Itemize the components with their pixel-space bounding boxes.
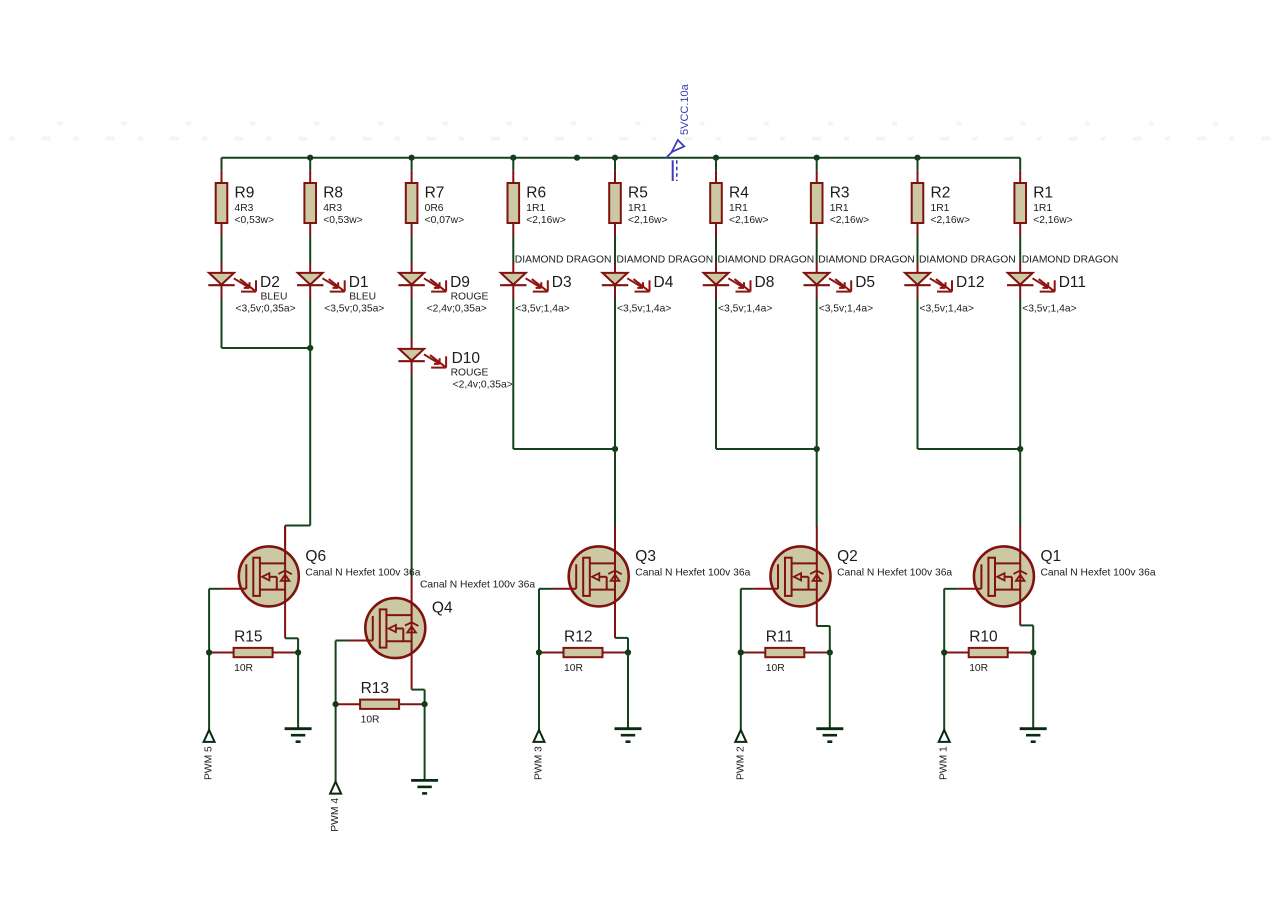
wire R2 to LED — [917, 236, 919, 262]
transistor Q2 — [754, 526, 953, 626]
node rail junction x=411.6 — [409, 155, 415, 161]
wire R8 to LED — [309, 236, 311, 262]
wire Q6 source to ground — [297, 653, 299, 729]
svg-text:R5: R5 — [628, 184, 648, 201]
wire Q1 source to ground — [1032, 653, 1034, 729]
wire R3 to LED — [816, 236, 818, 262]
wire D10 down to Q4 — [411, 374, 413, 578]
wire Q1 gate — [944, 588, 957, 590]
resistor R7 — [406, 170, 464, 236]
wire R4 to LED — [715, 236, 717, 262]
svg-text:DIAMOND DRAGON: DIAMOND DRAGON — [1022, 254, 1119, 265]
node R12 source junction — [625, 649, 631, 655]
svg-text:10R: 10R — [361, 715, 380, 726]
LED D10 — [398, 338, 512, 390]
svg-text:D12: D12 — [956, 274, 984, 291]
wire D5 column down to Q2 — [816, 299, 818, 527]
node R15 gate junction — [206, 649, 212, 655]
svg-text:<3,5v;1,4a>: <3,5v;1,4a> — [617, 303, 671, 314]
svg-text:PWM 1: PWM 1 — [939, 746, 950, 780]
wire Q3 gate — [539, 588, 552, 590]
node rail junction x=310.2 — [307, 155, 313, 161]
wire D12 down — [917, 299, 919, 450]
resistor R12 — [539, 628, 628, 674]
svg-text:<3,5v;0,35a>: <3,5v;0,35a> — [324, 303, 384, 314]
wire rail to R3 — [816, 158, 818, 171]
svg-text:1R1: 1R1 — [729, 203, 748, 214]
node rail junction x=716 — [713, 155, 719, 161]
svg-text:<3,5v;1,4a>: <3,5v;1,4a> — [515, 303, 569, 314]
wire R9 to LED — [221, 236, 223, 262]
transistor Q3 — [552, 526, 751, 638]
resistor R15 — [209, 628, 298, 674]
wire D8 down — [715, 299, 717, 450]
node D2/D1 junction — [307, 345, 313, 351]
svg-text:BLEU: BLEU — [349, 292, 376, 303]
node R13 gate junction — [333, 701, 339, 707]
svg-text:Canal N Hexfet 100v 36a: Canal N Hexfet 100v 36a — [305, 568, 420, 579]
svg-text:D2: D2 — [260, 274, 280, 291]
svg-text:<2,16w>: <2,16w> — [729, 215, 769, 226]
svg-text:<0,53w>: <0,53w> — [235, 215, 275, 226]
resistor R6 — [508, 170, 566, 236]
wire Q3 source jog — [615, 637, 628, 639]
svg-text:<2,4v;0,35a>: <2,4v;0,35a> — [427, 303, 487, 314]
svg-text:Q4: Q4 — [432, 600, 453, 617]
svg-text:10R: 10R — [564, 663, 583, 674]
svg-text:DIAMOND DRAGON: DIAMOND DRAGON — [818, 254, 915, 265]
node rail junction x=577 — [574, 155, 580, 161]
LED D4 — [602, 254, 713, 314]
svg-text:<2,16w>: <2,16w> — [931, 215, 971, 226]
wire R5 to LED — [614, 236, 616, 262]
svg-text:PWM 3: PWM 3 — [534, 746, 545, 780]
transistor Q1 — [957, 526, 1156, 625]
svg-text:Canal N Hexfet 100v 36a: Canal N Hexfet 100v 36a — [635, 568, 750, 579]
node R15 source junction — [295, 649, 301, 655]
resistor R13 — [336, 680, 425, 726]
resistor R9 — [216, 170, 274, 236]
wire R1 to LED — [1019, 236, 1021, 262]
LED D2 — [208, 262, 295, 314]
node rail junction x=513.3 — [510, 155, 516, 161]
node rail junction x=917.5 — [914, 155, 920, 161]
svg-text:PWM 4: PWM 4 — [330, 798, 341, 832]
ground — [1020, 729, 1047, 742]
node D3/D4 junction — [612, 446, 618, 452]
svg-text:Canal N Hexfet 100v 36a: Canal N Hexfet 100v 36a — [420, 579, 535, 590]
svg-text:R4: R4 — [729, 184, 749, 201]
wire D2 to D1 column — [222, 347, 311, 349]
wire rail to R9 — [221, 158, 223, 171]
svg-text:R8: R8 — [323, 184, 343, 201]
wire Q6 gate — [209, 588, 222, 590]
svg-text:<2,16w>: <2,16w> — [1033, 215, 1073, 226]
node R11 gate junction — [738, 649, 744, 655]
wire rail to R7 — [411, 158, 413, 171]
svg-text:10R: 10R — [766, 663, 785, 674]
svg-text:R2: R2 — [931, 184, 951, 201]
svg-text:R9: R9 — [235, 184, 255, 201]
svg-text:DIAMOND DRAGON: DIAMOND DRAGON — [718, 254, 815, 265]
svg-text:R15: R15 — [234, 628, 262, 645]
resistor R11 — [741, 628, 830, 674]
wire rail to R5 — [614, 158, 616, 171]
input terminal PWM 5 — [204, 730, 215, 780]
svg-text:1R1: 1R1 — [931, 203, 950, 214]
svg-text:PWM 5: PWM 5 — [204, 746, 215, 780]
wire Q2 source jog — [817, 625, 830, 627]
resistor R8 — [304, 170, 362, 236]
svg-text:<3,5v;0,35a>: <3,5v;0,35a> — [236, 303, 296, 314]
svg-text:<3,5v;1,4a>: <3,5v;1,4a> — [1022, 303, 1076, 314]
LED D9 — [398, 262, 488, 314]
svg-text:R6: R6 — [526, 184, 546, 201]
wire D4 column down to Q3 — [614, 299, 616, 527]
wire D3 to D4 column — [513, 448, 615, 450]
wire Q4 gate — [336, 640, 349, 642]
svg-text:<2,16w>: <2,16w> — [628, 215, 668, 226]
wire Q4 source to ground — [424, 704, 426, 780]
svg-text:<3,5v;1,4a>: <3,5v;1,4a> — [819, 303, 873, 314]
wire D11 column down to Q1 — [1019, 299, 1021, 527]
svg-text:R12: R12 — [564, 628, 592, 645]
ground — [816, 729, 843, 742]
svg-text:Q3: Q3 — [635, 548, 656, 565]
input terminal PWM 3 — [534, 730, 545, 780]
svg-text:<0,53w>: <0,53w> — [323, 215, 363, 226]
wire Q4 source jog — [412, 689, 425, 691]
svg-text:<2,16w>: <2,16w> — [830, 215, 870, 226]
svg-text:10R: 10R — [969, 663, 988, 674]
input terminal PWM 4 — [330, 782, 341, 832]
wire D12 to D11 column — [918, 448, 1021, 450]
wire R7 to LED — [411, 236, 413, 262]
wire VCC top rail — [222, 157, 1021, 159]
resistor R2 — [912, 170, 970, 236]
wire rail to R1 — [1019, 158, 1021, 171]
node R10 source junction — [1030, 649, 1036, 655]
svg-text:D10: D10 — [452, 350, 481, 367]
svg-text:D5: D5 — [855, 274, 875, 291]
wire rail to R6 — [512, 158, 514, 171]
node D8/D5 junction — [814, 446, 820, 452]
resistor R1 — [1014, 170, 1072, 236]
wire D8 to D5 column — [716, 448, 817, 450]
wire D9 to D10 — [411, 299, 413, 339]
svg-text:D3: D3 — [552, 274, 572, 291]
node R10 gate junction — [941, 649, 947, 655]
LED D5 — [804, 254, 915, 314]
svg-text:<0,07w>: <0,07w> — [425, 215, 465, 226]
wire Q2 source to ground — [829, 653, 831, 729]
transistor Q6 — [222, 526, 421, 638]
svg-text:R7: R7 — [425, 184, 445, 201]
input terminal PWM 1 — [939, 730, 950, 780]
svg-text:ROUGE: ROUGE — [451, 292, 489, 303]
wire Q1 source jog — [1020, 624, 1033, 626]
svg-text:1R1: 1R1 — [526, 203, 545, 214]
svg-text:D8: D8 — [755, 274, 775, 291]
svg-text:10R: 10R — [234, 663, 253, 674]
resistor R10 — [944, 628, 1033, 674]
svg-text:Canal N Hexfet 100v 36a: Canal N Hexfet 100v 36a — [837, 568, 952, 579]
wire Q2 gate — [741, 588, 754, 590]
ground — [285, 729, 312, 742]
LED D3 — [500, 254, 611, 314]
svg-text:5VCC.10a: 5VCC.10a — [679, 83, 691, 135]
svg-text:<2,4v;0,35a>: <2,4v;0,35a> — [453, 379, 513, 390]
LED D1 — [297, 262, 384, 314]
svg-text:ROUGE: ROUGE — [451, 368, 489, 379]
LED D12 — [904, 254, 1015, 314]
svg-text:Q2: Q2 — [837, 548, 858, 565]
wire Q3 source to ground — [627, 653, 629, 729]
svg-text:D11: D11 — [1059, 274, 1086, 291]
svg-text:D1: D1 — [349, 274, 369, 291]
wire D2 down — [221, 299, 223, 349]
wire rail to R2 — [917, 158, 919, 171]
node R13 source junction — [422, 701, 428, 707]
wire Q6 source jog — [285, 637, 298, 639]
svg-text:DIAMOND DRAGON: DIAMOND DRAGON — [919, 254, 1016, 265]
svg-text:R13: R13 — [361, 680, 389, 697]
svg-text:<3,5v;1,4a>: <3,5v;1,4a> — [920, 303, 974, 314]
svg-text:R1: R1 — [1033, 184, 1053, 201]
wire D3 down — [512, 299, 514, 450]
svg-text:D9: D9 — [450, 274, 470, 291]
wire Q6 drain pin — [284, 526, 286, 547]
node rail junction x=816.7 — [814, 155, 820, 161]
svg-text:R11: R11 — [766, 628, 793, 645]
wire R6 to LED — [512, 236, 514, 262]
transistor Q4 — [349, 578, 536, 690]
node R12 gate junction — [536, 649, 542, 655]
resistor R3 — [811, 170, 869, 236]
input terminal PWM 2 — [735, 730, 746, 780]
svg-text:1R1: 1R1 — [1033, 203, 1052, 214]
svg-text:Q6: Q6 — [305, 548, 326, 565]
svg-text:4R3: 4R3 — [235, 203, 254, 214]
node D12/D11 junction — [1017, 446, 1023, 452]
LED D8 — [703, 254, 814, 314]
svg-text:Canal N Hexfet 100v 36a: Canal N Hexfet 100v 36a — [1041, 568, 1156, 579]
wire rail to R8 — [309, 158, 311, 171]
svg-text:D4: D4 — [654, 274, 674, 291]
node rail junction x=615 — [612, 155, 618, 161]
svg-text:BLEU: BLEU — [261, 292, 288, 303]
resistor R5 — [609, 170, 667, 236]
node R11 source junction — [827, 649, 833, 655]
svg-text:DIAMOND DRAGON: DIAMOND DRAGON — [515, 254, 612, 265]
wire rail to R4 — [715, 158, 717, 171]
svg-text:Q1: Q1 — [1041, 548, 1062, 565]
svg-text:PWM 2: PWM 2 — [735, 746, 746, 780]
ground — [615, 729, 642, 742]
svg-text:0R6: 0R6 — [425, 203, 444, 214]
svg-text:4R3: 4R3 — [323, 203, 342, 214]
resistor R4 — [710, 170, 768, 236]
svg-text:<2,16w>: <2,16w> — [526, 215, 566, 226]
power terminal 5VCC.10a — [666, 83, 691, 181]
svg-text:DIAMOND DRAGON: DIAMOND DRAGON — [617, 254, 714, 265]
svg-text:R10: R10 — [969, 628, 998, 645]
wire D1 column down to Q6 — [309, 299, 311, 526]
svg-text:1R1: 1R1 — [830, 203, 849, 214]
ground — [411, 780, 438, 793]
svg-text:R3: R3 — [830, 184, 850, 201]
LED D11 — [1007, 254, 1118, 314]
svg-text:1R1: 1R1 — [628, 203, 647, 214]
svg-text:<3,5v;1,4a>: <3,5v;1,4a> — [718, 303, 772, 314]
